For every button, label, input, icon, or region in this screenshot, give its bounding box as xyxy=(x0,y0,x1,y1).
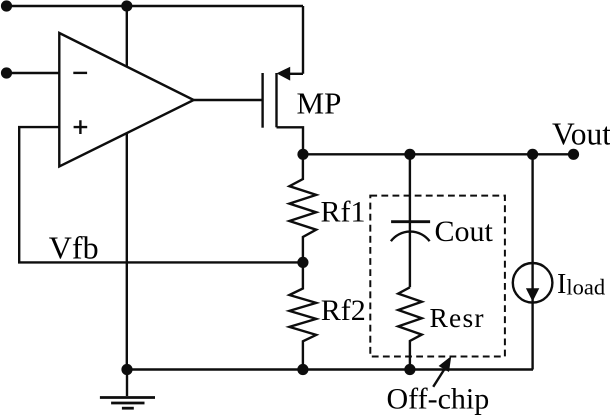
svg-text:Rf1: Rf1 xyxy=(321,195,366,228)
junction dot inverting input terminal xyxy=(1,67,12,78)
junction dot Rf2 bottom xyxy=(297,364,308,375)
wire supply vertical VDD to ground rail xyxy=(126,6,128,370)
junction dot Cout branch top xyxy=(404,149,415,160)
wire Vout rail xyxy=(303,153,575,155)
wire MP source to VDD rail xyxy=(302,6,304,74)
resistor Rf1 xyxy=(289,154,316,262)
wire op-amp output to MP gate xyxy=(194,99,263,101)
svg-text:Rf2: Rf2 xyxy=(321,294,366,327)
dashed box off-chip xyxy=(370,196,505,357)
svg-text:Cout: Cout xyxy=(435,215,494,248)
capacitor Cout xyxy=(391,154,430,287)
svg-text:Resr: Resr xyxy=(430,302,485,333)
wire inverting input xyxy=(7,72,60,74)
junction dot ground rail left xyxy=(121,364,132,375)
wire ground bottom rail xyxy=(127,368,533,370)
arrow off-chip pointer xyxy=(433,356,451,387)
op-amp U1 xyxy=(59,33,193,167)
svg-text:Vout: Vout xyxy=(552,116,610,151)
junction dot Resr bottom xyxy=(404,364,415,375)
current source Iload xyxy=(513,263,553,303)
junction dot Iload branch top xyxy=(527,149,538,160)
svg-text:Vfb: Vfb xyxy=(49,229,99,265)
wire Iload branch xyxy=(531,154,533,369)
ground xyxy=(100,370,155,409)
svg-text:Iload: Iload xyxy=(557,269,605,300)
resistor Resr xyxy=(398,287,422,369)
junction dot Vfb node xyxy=(297,257,308,268)
junction dot VDD supply xyxy=(121,0,132,11)
junction dot Vout terminal xyxy=(568,149,579,160)
junction dot VDD left terminal xyxy=(1,0,12,11)
svg-text:MP: MP xyxy=(297,85,342,120)
transistor MP (PMOS) xyxy=(263,67,303,155)
resistor Rf2 xyxy=(289,262,316,369)
svg-text:Off-chip: Off-chip xyxy=(387,382,490,415)
junction dot MP drain / Vout xyxy=(297,149,308,160)
wire feedback Vfb to non-inverting input xyxy=(19,127,303,262)
wire VDD top rail xyxy=(7,5,304,7)
